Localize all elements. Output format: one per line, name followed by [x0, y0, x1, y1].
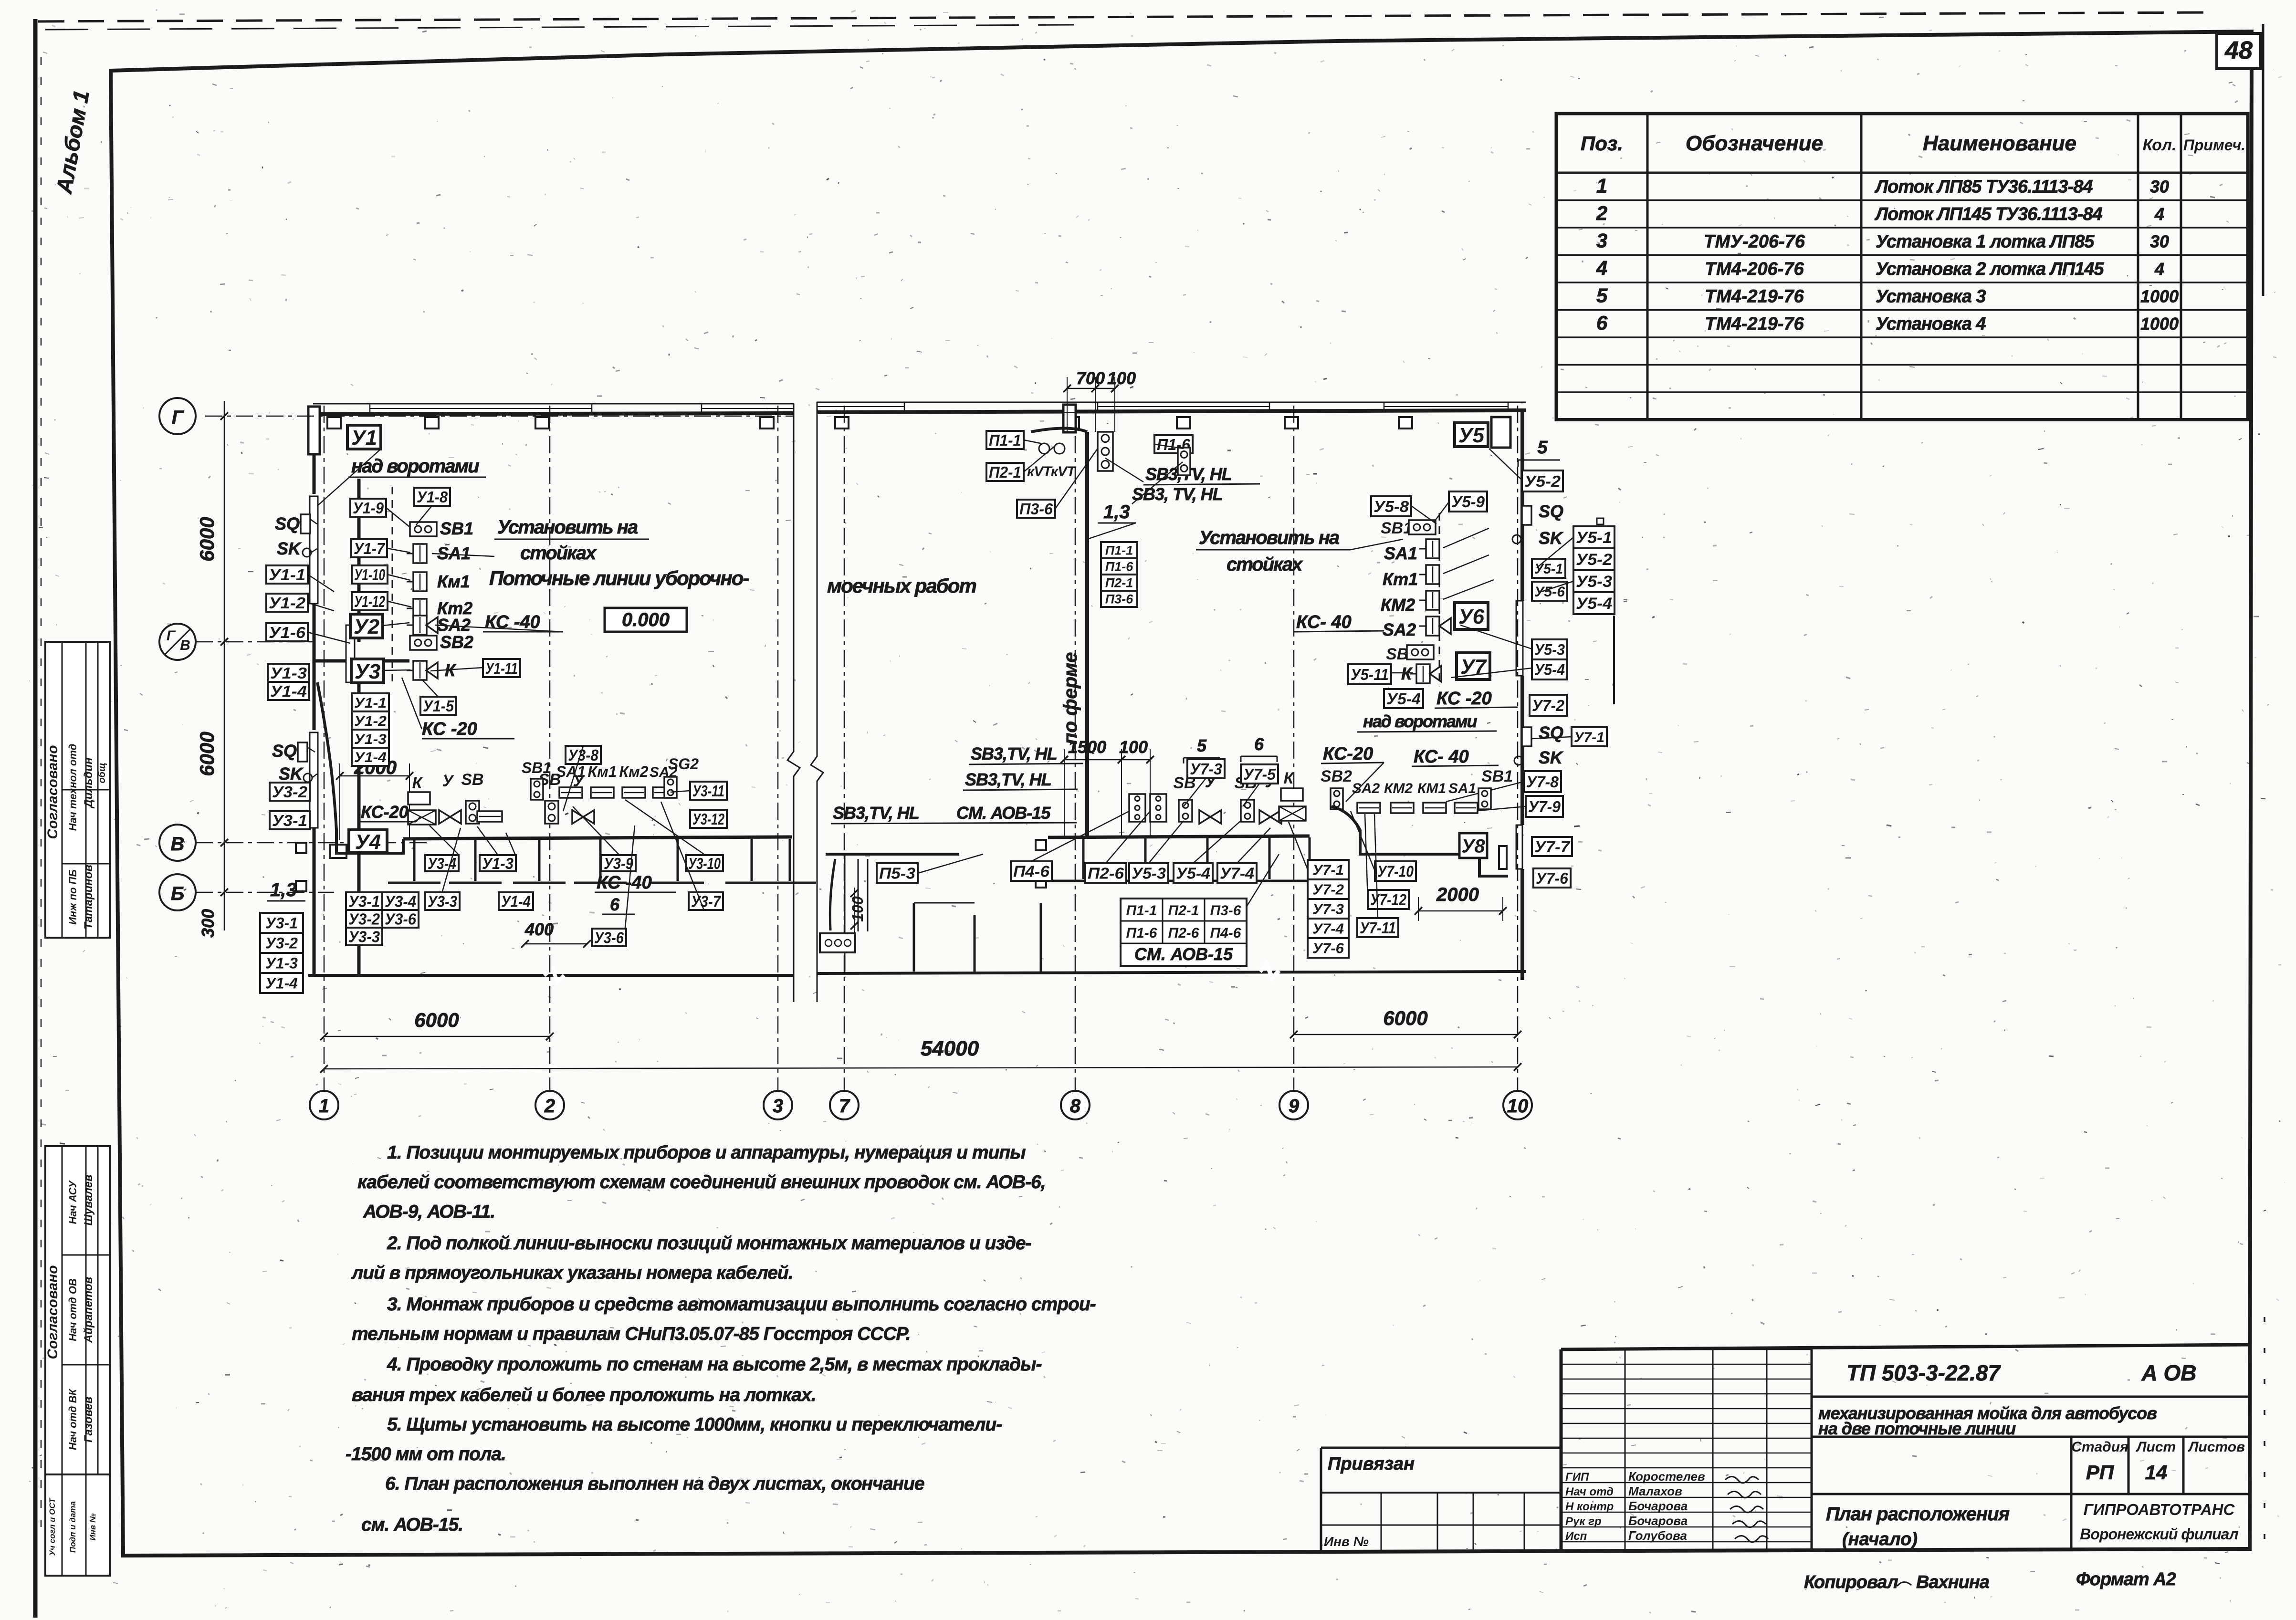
svg-text:Исп: Исп	[1565, 1530, 1587, 1543]
svg-text:ТМ4-219-76: ТМ4-219-76	[1705, 286, 1804, 306]
svg-text:У7-2: У7-2	[1532, 697, 1565, 714]
svg-text:5. Щиты установить на высоте 1: 5. Щиты установить на высоте 1000мм, кно…	[387, 1414, 1002, 1435]
svg-text:У7-5: У7-5	[1243, 765, 1276, 783]
svg-text:Малахов: Малахов	[1628, 1484, 1682, 1498]
svg-text:У3-1: У3-1	[272, 812, 307, 829]
svg-text:П1-6: П1-6	[1126, 925, 1157, 941]
svg-text:6: 6	[1254, 734, 1264, 754]
svg-text:4: 4	[1596, 257, 1607, 279]
svg-text:Воронежский филиал: Воронежский филиал	[2080, 1526, 2239, 1543]
svg-text:SA1: SA1	[556, 763, 586, 780]
svg-text:КС-20: КС-20	[361, 802, 409, 822]
svg-text:54000: 54000	[921, 1037, 979, 1060]
svg-text:см. АОВ-15.: см. АОВ-15.	[361, 1515, 463, 1535]
svg-text:У7-3: У7-3	[1312, 901, 1344, 918]
svg-text:SB2: SB2	[1321, 767, 1352, 785]
svg-text:Бочарова: Бочарова	[1628, 1514, 1688, 1528]
svg-text:Км1: Км1	[437, 572, 470, 591]
svg-text:1,3: 1,3	[1103, 502, 1130, 523]
svg-text:4. Проводку проложить по стена: 4. Проводку проложить по стенам на высот…	[387, 1354, 1041, 1375]
svg-text:КС- 40: КС- 40	[1296, 612, 1352, 632]
svg-text:У8: У8	[1461, 836, 1485, 857]
svg-text:Установить на: Установить на	[497, 517, 638, 538]
svg-text:Нач отд: Нач отд	[1565, 1485, 1614, 1498]
svg-text:Г: Г	[167, 628, 176, 644]
svg-text:У7-11: У7-11	[1360, 919, 1396, 937]
svg-text:КС -20: КС -20	[1436, 689, 1492, 709]
svg-text:SB1: SB1	[1481, 767, 1513, 785]
svg-text:30: 30	[2150, 177, 2169, 196]
svg-text:У1-10: У1-10	[354, 566, 385, 584]
svg-text:У1-6: У1-6	[269, 624, 306, 641]
svg-text:Айрапетов: Айрапетов	[82, 1277, 95, 1343]
svg-text:700: 700	[1076, 368, 1105, 388]
svg-text:1000: 1000	[2140, 314, 2179, 334]
svg-text:У7-9: У7-9	[1528, 798, 1561, 815]
svg-text:6000: 6000	[1383, 1007, 1427, 1029]
svg-text:П1-6: П1-6	[1105, 560, 1133, 574]
svg-text:У1-4: У1-4	[501, 892, 531, 910]
svg-text:П2-1: П2-1	[1105, 576, 1133, 590]
svg-text:У7-10: У7-10	[1377, 862, 1414, 880]
svg-text:У5-4: У5-4	[1534, 661, 1565, 679]
svg-text:У3-8: У3-8	[568, 746, 599, 764]
svg-text:У7-6: У7-6	[1536, 869, 1569, 887]
svg-text:У1-4: У1-4	[265, 975, 298, 992]
svg-text:SB3,TV, HL: SB3,TV, HL	[833, 803, 919, 823]
svg-text:А ОВ: А ОВ	[2141, 1360, 2197, 1385]
svg-text:Стадия: Стадия	[2071, 1439, 2128, 1455]
svg-text:У5-3: У5-3	[1576, 573, 1612, 591]
svg-text:В: В	[180, 638, 190, 653]
svg-text:Инж по ПБ: Инж по ПБ	[67, 869, 79, 925]
svg-text:вания трех кабелей и более про: вания трех кабелей и более проложить на …	[352, 1385, 816, 1405]
svg-text:У5-4: У5-4	[1386, 690, 1421, 708]
svg-text:48: 48	[2224, 37, 2253, 64]
svg-text:2: 2	[1596, 202, 1607, 224]
svg-text:П3-6: П3-6	[1019, 500, 1053, 518]
svg-text:К: К	[412, 774, 423, 792]
svg-text:Г: Г	[172, 407, 185, 428]
svg-text:стойках: стойках	[520, 543, 597, 564]
svg-text:Поз.: Поз.	[1581, 132, 1623, 155]
svg-text:SB1: SB1	[440, 519, 473, 538]
svg-text:П2-1: П2-1	[1168, 903, 1199, 919]
svg-text:У7-8: У7-8	[1526, 773, 1559, 791]
svg-text:6000: 6000	[196, 517, 218, 561]
svg-text:Нач отд ОВ: Нач отд ОВ	[67, 1278, 79, 1341]
svg-text:Б: Б	[171, 883, 184, 904]
svg-text:SB: SB	[461, 771, 483, 789]
svg-text:Нач АСУ: Нач АСУ	[67, 1180, 79, 1224]
svg-text:1. Позиции монтируемых приборо: 1. Позиции монтируемых приборов и аппара…	[387, 1142, 1026, 1163]
svg-text:Согласовано: Согласовано	[45, 1265, 61, 1359]
svg-text:У3: У3	[355, 660, 380, 683]
svg-text:SQ: SQ	[275, 514, 300, 533]
svg-text:У3-4: У3-4	[385, 892, 416, 910]
svg-text:КС- 40: КС- 40	[1414, 747, 1469, 767]
svg-text:Шувалев: Шувалев	[82, 1174, 95, 1225]
svg-text:П4-6: П4-6	[1013, 862, 1050, 880]
svg-text:SA2: SA2	[1352, 781, 1380, 796]
svg-text:У5-3: У5-3	[1132, 864, 1166, 882]
svg-text:П4-6: П4-6	[1210, 925, 1241, 941]
svg-text:У1-5: У1-5	[423, 697, 454, 715]
svg-text:тельным нормам и правилам СНиП: тельным нормам и правилам СНиП3.05.07-85…	[352, 1324, 911, 1344]
svg-text:7: 7	[839, 1096, 850, 1117]
svg-text:У5-4: У5-4	[1176, 864, 1210, 882]
svg-text:Установка 3: Установка 3	[1876, 286, 1986, 306]
svg-text:У3-9: У3-9	[604, 855, 634, 872]
svg-text:Нач технол отд: Нач технол отд	[67, 744, 79, 831]
svg-text:ГИПРОАВТОТРАНС: ГИПРОАВТОТРАНС	[2084, 1501, 2235, 1518]
svg-text:ГИП: ГИП	[1565, 1471, 1589, 1484]
svg-text:У1-8: У1-8	[417, 488, 448, 506]
svg-text:SB3,TV, HL: SB3,TV, HL	[965, 770, 1051, 789]
svg-text:Привязан: Привязан	[1328, 1454, 1415, 1474]
svg-text:Установка 1 лотка ЛП85: Установка 1 лотка ЛП85	[1876, 231, 2095, 251]
svg-text:У5-9: У5-9	[1451, 493, 1485, 511]
svg-text:КС -20: КС -20	[422, 719, 477, 739]
svg-text:У3-6: У3-6	[385, 910, 417, 928]
svg-text:Согласовано: Согласовано	[45, 745, 61, 839]
svg-text:У7-12: У7-12	[1370, 891, 1407, 909]
svg-text:П2-6: П2-6	[1168, 925, 1199, 941]
svg-text:У5: У5	[1458, 424, 1485, 447]
svg-text:5: 5	[1197, 736, 1207, 755]
svg-text:ТМ4-206-76: ТМ4-206-76	[1705, 259, 1804, 279]
svg-text:6000: 6000	[196, 732, 218, 776]
svg-text:ТМ4-219-76: ТМ4-219-76	[1705, 314, 1804, 334]
svg-text:SK: SK	[1539, 748, 1564, 767]
svg-text:SA1: SA1	[1384, 543, 1417, 563]
svg-text:П3-6: П3-6	[1210, 903, 1241, 919]
svg-text:над воротами: над воротами	[1363, 711, 1478, 731]
svg-text:У5-6: У5-6	[1534, 584, 1565, 600]
svg-text:У3-3: У3-3	[428, 892, 457, 910]
svg-text:Инв №: Инв №	[88, 1513, 97, 1540]
svg-text:SB3, TV, HL: SB3, TV, HL	[1132, 484, 1223, 504]
svg-text:АОВ-9, АОВ-11.: АОВ-9, АОВ-11.	[363, 1202, 495, 1222]
svg-text:У1-3: У1-3	[270, 664, 307, 682]
svg-text:моечных работ: моечных работ	[827, 575, 976, 597]
svg-text:У: У	[442, 772, 454, 790]
svg-text:30: 30	[2150, 231, 2169, 251]
svg-text:на две поточные линии: на две поточные линии	[1818, 1419, 2016, 1438]
svg-text:У5-2: У5-2	[1524, 472, 1561, 490]
svg-text:КМ2: КМ2	[1381, 595, 1415, 615]
svg-text:У1-1: У1-1	[269, 566, 305, 584]
svg-text:У5-4: У5-4	[1576, 595, 1612, 613]
svg-text:SK: SK	[279, 764, 304, 784]
svg-text:SB2: SB2	[440, 632, 473, 652]
svg-text:ТП 503-3-22.87: ТП 503-3-22.87	[1846, 1360, 2001, 1385]
svg-text:Установка 2 лотка ЛП145: Установка 2 лотка ЛП145	[1876, 259, 2104, 279]
svg-text:4: 4	[2154, 259, 2164, 279]
svg-text:SQ: SQ	[1539, 723, 1563, 742]
svg-text:У1-1: У1-1	[354, 695, 387, 711]
svg-text:У7-7: У7-7	[1534, 838, 1571, 856]
svg-text:Км2: Км2	[619, 763, 648, 780]
svg-text:кVТкVТ: кVТкVТ	[1027, 464, 1077, 480]
svg-text:SB3,TV, HL: SB3,TV, HL	[971, 744, 1057, 763]
svg-text:400: 400	[524, 920, 554, 939]
svg-text:Бочарова: Бочарова	[1628, 1499, 1688, 1513]
svg-text:2000: 2000	[1436, 884, 1479, 905]
svg-text:1: 1	[319, 1096, 329, 1117]
svg-text:У1-2: У1-2	[269, 594, 306, 612]
svg-text:Н контр: Н контр	[1565, 1500, 1614, 1513]
svg-text:У1-3: У1-3	[354, 732, 387, 747]
svg-text:14: 14	[2145, 1461, 2168, 1484]
svg-text:Лоток ЛП85 ТУ36.1113-84: Лоток ЛП85 ТУ36.1113-84	[1874, 177, 2093, 197]
svg-text:У1-11: У1-11	[485, 659, 518, 677]
svg-text:СМ. АОВ-15: СМ. АОВ-15	[1134, 944, 1233, 964]
svg-text:1,3: 1,3	[270, 879, 297, 900]
svg-text:8: 8	[1070, 1096, 1081, 1117]
svg-text:6000: 6000	[414, 1009, 459, 1031]
svg-text:Дильдин: Дильдин	[82, 757, 95, 809]
svg-text:3. Монтаж приборов и средств а: 3. Монтаж приборов и средств автоматизац…	[387, 1294, 1096, 1315]
svg-text:П1-1: П1-1	[1126, 903, 1157, 919]
svg-text:У1-4: У1-4	[354, 750, 387, 765]
svg-text:SK: SK	[1539, 528, 1564, 548]
svg-text:Уч согл и ОСТ: Уч согл и ОСТ	[48, 1497, 57, 1556]
svg-text:КМ1: КМ1	[1417, 781, 1446, 796]
svg-text:У1-3: У1-3	[482, 855, 514, 872]
svg-text:SA2: SA2	[1383, 620, 1416, 639]
svg-text:У3-2: У3-2	[265, 935, 298, 952]
svg-text:У5-8: У5-8	[1373, 498, 1409, 515]
svg-text:У3-11: У3-11	[692, 782, 724, 800]
svg-text:Инв №: Инв №	[1324, 1534, 1369, 1549]
svg-text:У7-1: У7-1	[1312, 862, 1344, 878]
svg-text:лий в прямоугольниках указаны: лий в прямоугольниках указаны номера каб…	[351, 1263, 793, 1283]
svg-text:У7-3: У7-3	[1190, 760, 1222, 778]
svg-text:У3-1: У3-1	[348, 892, 380, 910]
svg-text:9: 9	[1289, 1096, 1300, 1117]
svg-text:Копировал: Копировал	[1804, 1572, 1898, 1592]
svg-text:У2: У2	[354, 615, 380, 638]
svg-text:Кол.: Кол.	[2143, 136, 2177, 154]
svg-text:РП: РП	[2086, 1461, 2114, 1484]
svg-text:2. Под полкой линии-выноски по: 2. Под полкой линии-выноски позиций монт…	[387, 1233, 1031, 1254]
svg-text:Альбом 1: Альбом 1	[52, 88, 94, 196]
svg-text:У5-11: У5-11	[1351, 666, 1389, 683]
svg-text:SB1: SB1	[1381, 519, 1412, 537]
svg-text:У1: У1	[351, 426, 377, 449]
svg-text:4: 4	[2154, 204, 2164, 224]
svg-text:Лоток ЛП145 ТУ36.1113-84: Лоток ЛП145 ТУ36.1113-84	[1874, 204, 2102, 224]
svg-text:У5-3: У5-3	[1534, 641, 1565, 658]
svg-text:У1-12: У1-12	[354, 593, 385, 610]
svg-text:Татаринов: Татаринов	[82, 865, 95, 930]
svg-text:6. План расположения выполнен: 6. План расположения выполнен на двух ли…	[385, 1474, 924, 1494]
svg-text:SA2: SA2	[437, 615, 471, 635]
svg-text:В: В	[171, 834, 185, 855]
svg-text:У3-3: У3-3	[348, 928, 380, 945]
svg-text:0.000: 0.000	[622, 609, 670, 630]
svg-text:КМ2: КМ2	[1384, 781, 1413, 796]
svg-text:П1-1: П1-1	[1105, 543, 1133, 558]
svg-text:300: 300	[198, 909, 218, 938]
svg-text:Примеч.: Примеч.	[2183, 136, 2245, 154]
svg-text:Обозначение: Обозначение	[1686, 132, 1823, 155]
svg-text:5: 5	[1537, 438, 1548, 458]
svg-text:5: 5	[1596, 284, 1608, 306]
svg-text:2: 2	[544, 1096, 555, 1117]
svg-text:У1-9: У1-9	[353, 499, 384, 517]
svg-text:-1500 мм от пола.: -1500 мм от пола.	[346, 1444, 506, 1464]
svg-text:Установка 4: Установка 4	[1876, 314, 1986, 334]
svg-text:по ферме: по ферме	[1060, 652, 1081, 744]
svg-text:У4: У4	[355, 830, 381, 854]
svg-text:У7-4: У7-4	[1220, 864, 1254, 882]
svg-text:У3-12: У3-12	[692, 810, 724, 828]
svg-text:SQ: SQ	[1539, 502, 1563, 521]
svg-text:Поточные линии уборочно-: Поточные линии уборочно-	[489, 567, 749, 589]
svg-text:Установить на: Установить на	[1199, 527, 1340, 548]
svg-text:3: 3	[773, 1096, 783, 1117]
svg-text:У1-4: У1-4	[270, 682, 307, 700]
svg-text:У7-6: У7-6	[1312, 940, 1344, 957]
svg-text:У7-4: У7-4	[1312, 920, 1344, 937]
svg-text:100: 100	[1119, 737, 1148, 757]
svg-text:План расположения: План расположения	[1826, 1504, 2010, 1525]
svg-text:У1-7: У1-7	[354, 540, 386, 557]
svg-text:У5-2: У5-2	[1576, 551, 1612, 569]
svg-text:стойках: стойках	[1227, 554, 1303, 575]
svg-text:общ: общ	[97, 763, 107, 783]
svg-text:Коростелев: Коростелев	[1628, 1469, 1705, 1484]
svg-text:КС-20: КС-20	[1323, 744, 1373, 764]
svg-text:У7-1: У7-1	[1574, 730, 1604, 745]
svg-text:Кт1: Кт1	[1383, 569, 1418, 589]
svg-text:У6: У6	[1458, 605, 1485, 628]
svg-text:Наименование: Наименование	[1923, 132, 2076, 155]
svg-text:SG2: SG2	[668, 755, 699, 773]
svg-text:Листов: Листов	[2188, 1439, 2245, 1455]
svg-text:СМ. АОВ-15: СМ. АОВ-15	[956, 803, 1051, 823]
svg-text:П3-6: П3-6	[1105, 592, 1133, 606]
svg-text:П1-1: П1-1	[989, 431, 1021, 449]
svg-text:Лист: Лист	[2136, 1439, 2176, 1455]
svg-text:SK: SK	[277, 539, 302, 558]
svg-text:SA1: SA1	[1448, 781, 1476, 796]
svg-text:У3-10: У3-10	[688, 855, 721, 872]
svg-text:SQ: SQ	[272, 741, 297, 761]
svg-text:Подп и дата: Подп и дата	[68, 1501, 77, 1553]
svg-text:ТМУ-206-76: ТМУ-206-76	[1704, 231, 1805, 251]
svg-text:У3-6: У3-6	[594, 929, 624, 946]
svg-text:У7-2: У7-2	[1312, 881, 1344, 898]
svg-text:У3-1: У3-1	[265, 915, 298, 932]
svg-text:6: 6	[1596, 312, 1608, 334]
svg-text:Голубова: Голубова	[1628, 1528, 1687, 1543]
svg-text:У5-1: У5-1	[1576, 529, 1612, 547]
svg-text:Рук гр: Рук гр	[1565, 1515, 1602, 1528]
svg-text:П2-6: П2-6	[1088, 864, 1124, 882]
svg-text:1: 1	[1596, 174, 1607, 197]
svg-text:кабелей соответствуют схемам с: кабелей соответствуют схемам соединений …	[357, 1172, 1046, 1192]
svg-text:У3-2: У3-2	[348, 910, 380, 928]
svg-text:П2-1: П2-1	[989, 463, 1021, 481]
svg-text:1000: 1000	[2140, 286, 2179, 306]
svg-text:У5-1: У5-1	[1534, 561, 1563, 577]
svg-text:К: К	[1284, 769, 1295, 787]
svg-text:Нач отд ВК: Нач отд ВК	[67, 1388, 79, 1450]
svg-text:3: 3	[1596, 229, 1607, 251]
svg-text:У1-3: У1-3	[265, 955, 298, 972]
svg-text:10: 10	[1507, 1096, 1529, 1117]
svg-text:6: 6	[610, 895, 620, 914]
svg-text:У1-2: У1-2	[354, 713, 387, 729]
svg-text:У3-7: У3-7	[691, 892, 721, 910]
svg-text:Формат А2: Формат А2	[2076, 1569, 2176, 1589]
svg-text:1500: 1500	[1068, 737, 1106, 757]
svg-text:SA1: SA1	[437, 543, 471, 563]
svg-text:Км1: Км1	[587, 763, 617, 780]
svg-text:SB1: SB1	[522, 759, 551, 776]
svg-text:Вахнина: Вахнина	[1916, 1572, 1990, 1592]
svg-text:П5-3: П5-3	[879, 864, 915, 882]
svg-text:Газовев: Газовев	[82, 1397, 95, 1442]
svg-text:100: 100	[1107, 368, 1136, 388]
svg-text:(начало): (начало)	[1842, 1529, 1918, 1549]
svg-text:У3-2: У3-2	[272, 783, 308, 801]
